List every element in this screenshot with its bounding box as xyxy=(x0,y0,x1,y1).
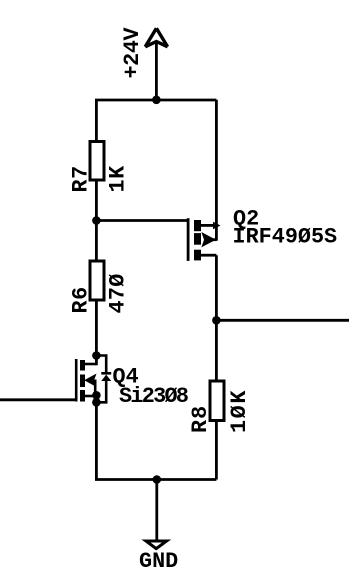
Q2 bulk stub xyxy=(212,238,216,241)
node A (R7/R6/gate) xyxy=(92,216,101,225)
node Q4 diode return junction xyxy=(92,398,101,407)
wire bottom rail xyxy=(95,478,216,481)
Q4 drain lead xyxy=(85,363,96,366)
Q2 source arrowhead xyxy=(213,222,221,229)
wire +24V stem xyxy=(155,43,158,100)
wire left rail lower xyxy=(95,396,98,480)
wire R6 to Q4 drain node xyxy=(95,300,98,365)
node top junction xyxy=(152,96,161,105)
Q2 channel bar top xyxy=(194,220,201,231)
Q4 channel bar middle xyxy=(80,375,85,388)
svg-text:GND: GND xyxy=(139,549,178,572)
svg-text:1K: 1K xyxy=(106,165,131,193)
wire right rail upper xyxy=(215,100,218,241)
Q4 channel bar bottom xyxy=(80,390,85,402)
node Q4 drain junction xyxy=(92,351,101,360)
svg-text:+24V: +24V xyxy=(120,26,145,78)
Q4 body diode xyxy=(96,356,111,403)
Q2 channel bar bottom xyxy=(194,250,201,261)
Q2 drain lead xyxy=(201,254,216,257)
node output junction xyxy=(212,316,221,325)
wire R7 to node A xyxy=(95,180,98,262)
Q4 bulk line xyxy=(94,380,97,396)
ground symbol xyxy=(146,541,167,549)
svg-text:Si23Ø8: Si23Ø8 xyxy=(119,384,188,409)
wire output node to edge xyxy=(216,319,349,322)
svg-text:R6: R6 xyxy=(69,286,94,313)
svg-text:47Ø: 47Ø xyxy=(106,273,131,313)
Q2 gate bar xyxy=(187,218,190,261)
transistor Q2 xyxy=(188,218,220,261)
Q2 channel bar middle xyxy=(194,233,201,245)
transistor Q4 xyxy=(0,356,111,403)
svg-text:1ØK: 1ØK xyxy=(227,389,252,433)
resistor R8 xyxy=(210,381,224,421)
resistor R6 xyxy=(90,261,104,300)
Q4 body diode triangle xyxy=(101,375,111,381)
svg-text:IRF49Ø5S: IRF49Ø5S xyxy=(233,225,338,250)
node Q4 source junction xyxy=(92,391,101,400)
wire gate lead Q2 xyxy=(96,219,188,222)
wire right rail middle xyxy=(215,255,218,381)
Q4 gate bar xyxy=(75,359,78,402)
wire GND stem xyxy=(155,480,158,541)
node bottom junction xyxy=(153,475,162,484)
resistor R7 xyxy=(90,142,104,181)
wire left rail upper xyxy=(95,100,98,141)
wire right rail lower xyxy=(215,420,218,480)
Q4 bulk arrow xyxy=(86,376,95,385)
Q2 source lead xyxy=(201,224,216,227)
power symbol +24V arrow xyxy=(145,28,167,47)
Q4 channel bar top xyxy=(80,360,85,371)
Q2 bulk arrow xyxy=(203,234,213,245)
wire top rail xyxy=(95,99,216,102)
Q4 source lead xyxy=(85,395,96,398)
svg-text:R7: R7 xyxy=(69,165,94,192)
Q4 gate lead wire xyxy=(0,398,76,401)
svg-text:R8: R8 xyxy=(188,405,213,433)
